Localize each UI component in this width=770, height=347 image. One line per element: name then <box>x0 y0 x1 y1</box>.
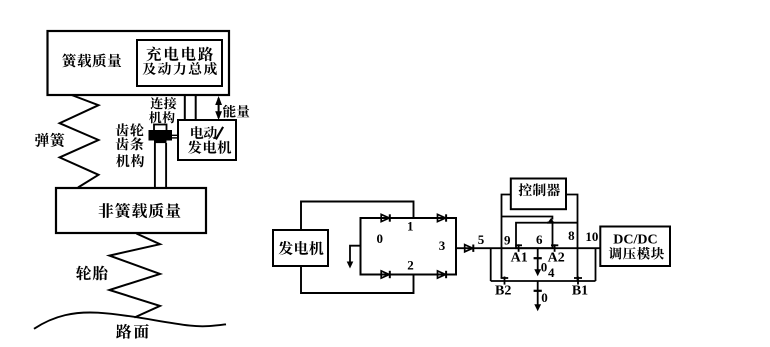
control signal wire to element 6 <box>502 217 553 220</box>
controller box 控制器 <box>511 179 566 210</box>
svg-text:6: 6 <box>536 232 543 247</box>
svg-text:1: 1 <box>407 219 414 234</box>
generator loop wires <box>301 202 414 294</box>
pinion-motor link wires <box>172 135 178 138</box>
pinion black block lower <box>154 141 167 144</box>
diode D5 output <box>465 245 474 252</box>
diode D3 bottom-left <box>381 271 390 278</box>
svg-text:4: 4 <box>548 265 555 280</box>
charging circuit inner box 充电电路及动力总成 <box>137 40 222 86</box>
label spring text: 弹簧 <box>35 133 64 147</box>
svg-text:B2: B2 <box>495 284 511 299</box>
switch A1 <box>515 244 522 252</box>
shaft wire left <box>184 95 186 120</box>
shaft wire right <box>195 95 197 120</box>
switch A2 <box>551 244 558 252</box>
diode D2 top-right <box>438 214 447 221</box>
label motor line1: 电动 <box>191 126 217 139</box>
svg-text:9: 9 <box>504 233 511 248</box>
label rack-pinion line2: 齿条 <box>116 137 144 150</box>
lower bus left riser <box>490 248 492 281</box>
controller right wire node 8 <box>566 195 578 282</box>
rack wire right <box>165 143 167 188</box>
label generator text: 发电机 <box>279 241 324 255</box>
element 6 box <box>516 223 553 249</box>
svg-text:10: 10 <box>585 229 598 244</box>
svg-text:DC/DC: DC/DC <box>613 233 657 248</box>
rectifier bridge box node 0 <box>361 218 457 275</box>
label sprung mass text: 簧载质量 <box>62 53 121 67</box>
switch B2 <box>501 277 509 285</box>
pinion black block <box>149 130 173 141</box>
svg-text:0: 0 <box>541 260 548 275</box>
sprung mass box 簧载质量 <box>48 31 230 95</box>
main bus wire node 3 to DC/DC <box>456 247 600 249</box>
svg-text:5: 5 <box>478 232 485 247</box>
svg-text:0: 0 <box>376 231 383 246</box>
label dcdc text line2: 调压模块 <box>609 247 664 260</box>
ground branch lower <box>534 281 542 311</box>
label unsprung mass text: 非簧载质量 <box>99 203 181 218</box>
svg-text:A1: A1 <box>511 251 528 266</box>
rack wire left <box>154 143 156 188</box>
label rack-pinion line3: 机构 <box>116 154 144 167</box>
ground branch node 4 upper <box>534 248 542 276</box>
generator box 发电机 <box>273 230 328 266</box>
tire spring zigzag 轮胎 <box>109 234 160 318</box>
pinion connector small rect <box>154 125 167 132</box>
energy double arrow 能量 <box>215 96 222 120</box>
label connecting mechanism line1: 连接 <box>150 97 176 109</box>
motor/generator box 电动/发电机 <box>178 120 236 160</box>
diode D4 bottom-right <box>438 271 447 278</box>
road surface curve 路面 <box>34 312 226 328</box>
wire element6 top to node 8 riser <box>547 222 578 224</box>
label controller text: 控制器 <box>519 183 560 196</box>
svg-text:3: 3 <box>439 238 446 253</box>
lower bus wire node 7 <box>491 280 596 282</box>
label energy text: 能量 <box>223 105 250 118</box>
label rack-pinion line1: 齿轮 <box>116 123 144 136</box>
switch B1 <box>574 277 582 285</box>
label charging circuit line2: 及动力总成 <box>143 62 217 75</box>
label connecting mechanism line2: 机构 <box>149 111 175 123</box>
label motor line2: 发电机 <box>188 140 231 153</box>
label road text: 路面 <box>116 324 149 339</box>
node 10 riser <box>595 248 597 281</box>
svg-text:8: 8 <box>568 228 575 243</box>
label charging circuit line1: 充电电路 <box>146 47 213 62</box>
suspension spring 弹簧 zigzag <box>60 95 99 188</box>
diode D1 top-left <box>381 214 390 221</box>
motor slash glyph <box>216 127 223 139</box>
unsprung mass box 非簧载质量 <box>56 188 206 233</box>
signal arrowhead at element 6 <box>547 218 555 223</box>
svg-text:A2: A2 <box>548 251 565 266</box>
ground arrow node 0 <box>347 246 361 269</box>
DC/DC module box <box>600 227 670 267</box>
label tire text: 轮胎 <box>76 266 108 281</box>
svg-text:B1: B1 <box>572 284 588 299</box>
controller left wire node 9 <box>502 195 511 279</box>
svg-text:0: 0 <box>541 290 548 305</box>
svg-text:2: 2 <box>407 258 414 273</box>
